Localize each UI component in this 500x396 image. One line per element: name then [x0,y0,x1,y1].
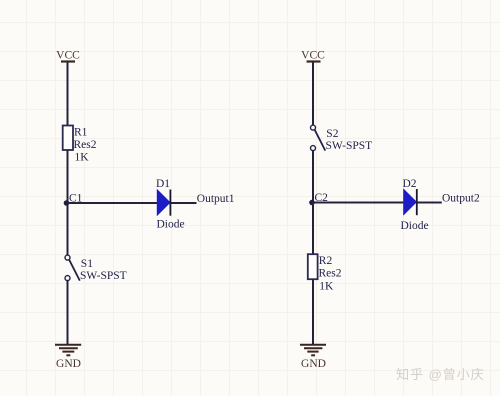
ground bars [55,344,81,346]
wire C2 to R2 [312,203,314,255]
wire D1 to Output1 [170,202,196,204]
ground bars [300,344,326,346]
svg-text:S1: S1 [81,258,93,270]
svg-text:Diode: Diode [401,220,429,232]
wire S2 to node C2 [312,151,314,203]
switch S1 top contact [65,255,70,260]
switch S1 lever [69,260,80,281]
node C2 [309,192,328,205]
switch S2 top contact [311,125,316,130]
switch S1 bottom contact [65,276,70,281]
svg-text:Diode: Diode [157,219,185,231]
wire D2 to Output2 [417,202,442,204]
node C1 [64,193,83,206]
resistor R1 [63,126,97,164]
junction dot C2 [309,200,315,206]
svg-text:VCC: VCC [301,50,325,62]
wire C1 to D1 [66,202,158,204]
svg-text:D2: D2 [403,178,417,190]
wire R1 to node C1 [67,150,69,203]
svg-text:Output2: Output2 [442,192,480,204]
wire C1 to S1 [67,203,69,255]
diode D2 anode triangle [404,190,417,215]
svg-text:1K: 1K [75,152,90,164]
svg-text:R2: R2 [319,255,333,267]
svg-text:GND: GND [56,358,81,370]
diode D2 cathode bar [416,189,418,215]
ground (left) [55,345,81,370]
wire VCC to S2 [312,62,314,126]
VCC power bar [307,60,321,62]
switch S2 lever [315,130,326,151]
svg-text:GND: GND [301,358,326,370]
diode D2 [401,178,429,232]
switch S2 [311,125,373,152]
junction dot C1 [64,200,70,206]
svg-text:1K: 1K [319,281,334,293]
switch S2 bottom contact [311,146,316,151]
svg-text:VCC: VCC [56,50,80,62]
power symbol VCC (right) [301,50,325,62]
power symbol VCC (left) [56,50,80,62]
svg-text:R1: R1 [74,127,88,139]
diode D1 [156,178,185,231]
svg-text:S2: S2 [326,128,338,140]
resistor R2 [308,254,342,292]
svg-text:Res2: Res2 [319,268,342,280]
svg-text:SW-SPST: SW-SPST [326,140,373,152]
wire C2 to D2 [312,202,404,204]
svg-text:SW-SPST: SW-SPST [80,270,127,282]
diode D1 anode triangle [157,190,170,215]
wire R2 to GND [312,279,314,344]
switch S1 [65,255,127,282]
diode D1 cathode bar [169,190,171,216]
svg-text:Res2: Res2 [74,139,97,151]
ground (right) [300,345,326,370]
svg-text:知乎 @曾小庆: 知乎 @曾小庆 [396,366,485,382]
wire VCC to R1 [67,62,69,127]
svg-text:D1: D1 [156,178,170,190]
svg-text:Output1: Output1 [197,193,235,205]
VCC power bar [61,60,75,62]
wire S1 to GND [67,281,69,345]
